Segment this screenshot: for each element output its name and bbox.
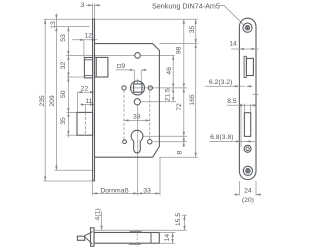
bar divider [150,233,152,244]
extension line cylinder side hole level [154,141,188,143]
svg-text:50: 50 [60,90,67,98]
svg-text:22: 22 [81,86,89,93]
dimension 3 (faceplate thickness) [86,4,101,20]
dimension 6.8(3.8) [209,140,256,142]
extension line faceplate top [44,18,198,20]
svg-text:3: 3 [81,2,85,9]
svg-text:11: 11 [85,98,92,105]
dimension 6.2(3.2) [205,85,245,87]
extension line deadbolt left top [77,92,79,112]
follower centerline stub [136,79,138,84]
break marks on bar [130,230,142,232]
extension line deadbolt bottom [67,134,78,136]
follower side hole right [148,86,152,90]
svg-text:(20): (20) [242,197,254,204]
svg-text:38: 38 [133,114,141,121]
extension line deadbolt hidden edge top [84,105,86,113]
leader line to countersunk hole [220,6,244,26]
dimension 38 (follower side holes) [124,91,150,140]
svg-text:235: 235 [39,95,46,107]
svg-text:33: 33 [143,188,151,195]
dimension chain 53/32/50/35 [67,27,69,138]
dimension 98 / 72 / 8 [183,19,185,147]
svg-text:35: 35 [189,26,196,34]
latch bolt head [84,58,92,78]
bottom view: latch bar [94,233,159,244]
dashed centerline through latch bar [136,230,138,247]
top countersunk screw hole [243,23,252,32]
svg-text:53: 53 [60,34,67,42]
svg-text:13: 13 [50,21,57,29]
extension line latch bottom tick [67,76,84,78]
svg-text:8.5: 8.5 [227,98,237,105]
case top screw hole [135,53,141,59]
latch head bevel diagonal [84,236,92,244]
cylinder side hole left [123,140,127,144]
svg-text:4(1): 4(1) [94,208,101,220]
deadbolt [77,112,93,135]
svg-text:9: 9 [121,63,125,70]
dimension square 9 (follower) [116,64,146,84]
follower side hole left [122,86,126,90]
dimension 14 (bar width) [159,233,175,244]
deadbolt hidden edge [84,112,86,135]
extension line faceplate bottom / 235 [44,180,93,182]
latch opening in strip [246,58,253,75]
svg-text:15.5: 15.5 [175,213,182,226]
extension line latch head left [83,40,85,58]
dimension 11 (deadbolt thrown) [81,104,95,106]
svg-text:35: 35 [60,117,67,125]
follower (square spindle) [131,81,145,95]
hole below follower [134,99,140,105]
svg-text:Senkung DIN74-Am5: Senkung DIN74-Am5 [152,1,220,10]
latch head bevel top edge [84,232,92,236]
euro profile cylinder hole [131,130,143,153]
dimension 35 / 165 [195,19,197,157]
dimension 4(1) [93,211,187,230]
svg-text:14: 14 [229,41,237,48]
svg-text:21.5: 21.5 [165,88,172,101]
svg-text:72: 72 [176,103,183,111]
svg-text:6.8(3.8): 6.8(3.8) [210,134,233,141]
svg-text:209: 209 [49,95,56,107]
dimension 8.5 [227,104,256,106]
cylinder side hole right [148,140,152,144]
svg-text:14: 14 [164,234,171,242]
dimension 15.5 [182,215,187,230]
latch bolt body [95,57,108,77]
extension line lower hole level [141,101,176,103]
svg-text:Dornmaß: Dornmaß [100,188,128,195]
svg-text:98: 98 [176,47,183,55]
dimension 24 / (20) [234,181,261,196]
extension line cylinder level [143,135,187,137]
dimension 12 (latch projection) [72,39,97,41]
extension line 13-dim bottom [55,26,90,28]
extension line deadbolt top [67,111,78,113]
svg-text:24: 24 [244,187,252,194]
dimension 46 / 21.5 [172,55,174,101]
latch bolt edge in strip [244,56,246,77]
svg-text:8: 8 [177,150,184,154]
svg-text:165: 165 [189,94,196,106]
dimension 209 and 13 [55,14,57,171]
dimension 22 (deadbolt) [78,91,95,93]
extension line follower level [130,87,187,89]
bottom countersunk screw hole [243,166,252,175]
svg-text:6.2(3.2): 6.2(3.2) [209,79,232,86]
bottom view: faceplate section [91,228,95,246]
plain hole in strip [244,145,251,152]
extension line 209 bottom [55,169,94,171]
tick on strip right edge [253,93,259,95]
Dornmass dimension [92,105,160,196]
deadbolt opening in strip [244,113,250,137]
faceplate front view [93,19,95,181]
extension line case bottom right [159,156,197,158]
extension line screw hole level [66,54,135,56]
extension line case top right [159,43,197,45]
dimension 14 (strip top) [231,48,259,50]
bottom view: latch head nose [77,236,84,240]
svg-text:12: 12 [85,32,93,39]
svg-text:32: 32 [60,62,67,70]
dimension 235 [44,19,46,181]
svg-text:46: 46 [166,67,173,75]
right view: faceplate strip [239,18,256,179]
lock case outline [95,44,160,158]
